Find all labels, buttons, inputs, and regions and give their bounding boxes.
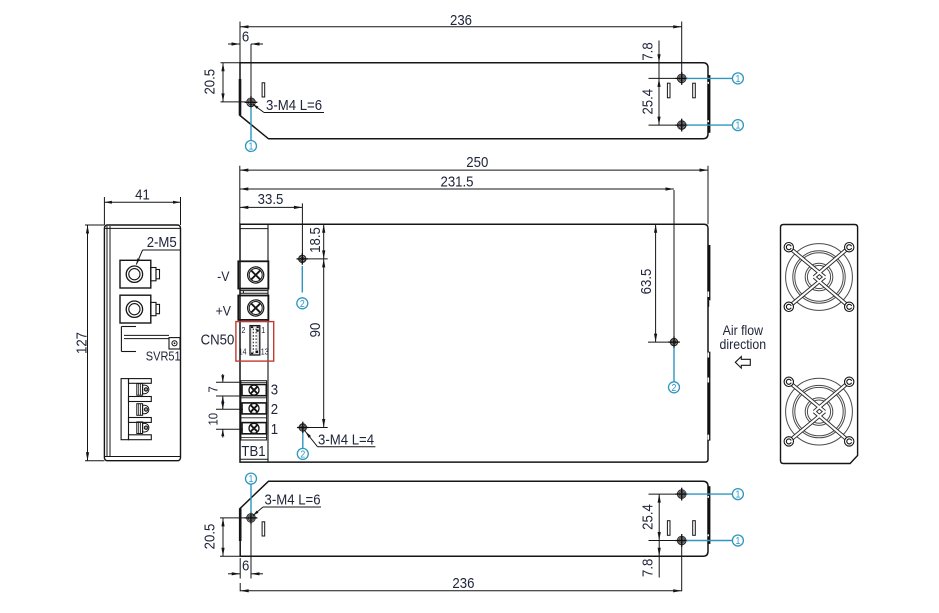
svg-text:1: 1 — [249, 473, 254, 485]
svg-text:25.4: 25.4 — [638, 89, 655, 115]
svg-text:7: 7 — [206, 386, 221, 393]
svg-text:10: 10 — [206, 413, 221, 426]
svg-text:2: 2 — [672, 381, 677, 393]
svg-text:1: 1 — [735, 488, 740, 500]
svg-text:18.5: 18.5 — [306, 227, 323, 253]
svg-text:1: 1 — [261, 325, 265, 335]
svg-text:6: 6 — [242, 28, 249, 45]
svg-text:1: 1 — [735, 72, 740, 84]
svg-text:direction: direction — [720, 336, 767, 352]
svg-text:3-M4 L=4: 3-M4 L=4 — [318, 430, 374, 447]
svg-text:250: 250 — [466, 153, 488, 170]
svg-text:1: 1 — [249, 140, 254, 152]
svg-text:2: 2 — [300, 448, 305, 460]
svg-text:20.5: 20.5 — [201, 69, 218, 95]
svg-text:1: 1 — [735, 534, 740, 546]
svg-text:236: 236 — [452, 574, 474, 591]
svg-text:2: 2 — [241, 325, 245, 335]
svg-text:3: 3 — [271, 381, 278, 398]
svg-text:TB1: TB1 — [241, 442, 265, 459]
svg-text:CN50: CN50 — [201, 330, 235, 347]
svg-text:2-M5: 2-M5 — [147, 233, 177, 250]
svg-text:41: 41 — [135, 186, 150, 203]
svg-text:1: 1 — [735, 119, 740, 131]
svg-text:7.8: 7.8 — [638, 42, 655, 60]
svg-text:13: 13 — [261, 347, 269, 357]
svg-text:236: 236 — [450, 11, 472, 28]
svg-text:63.5: 63.5 — [637, 269, 654, 295]
svg-text:14: 14 — [239, 347, 247, 357]
svg-text:-V: -V — [217, 268, 230, 284]
svg-text:+V: +V — [216, 303, 232, 319]
svg-text:33.5: 33.5 — [258, 190, 284, 207]
svg-text:2: 2 — [300, 297, 305, 309]
svg-text:20.5: 20.5 — [201, 524, 218, 550]
svg-text:2: 2 — [271, 400, 278, 417]
svg-text:3-M4 L=6: 3-M4 L=6 — [265, 491, 321, 508]
svg-text:90: 90 — [306, 323, 323, 338]
svg-text:SVR51: SVR51 — [146, 350, 181, 364]
svg-text:127: 127 — [73, 332, 90, 354]
svg-text:7.8: 7.8 — [638, 558, 655, 576]
svg-text:1: 1 — [271, 420, 278, 437]
svg-text:25.4: 25.4 — [638, 504, 655, 530]
svg-text:3-M4 L=6: 3-M4 L=6 — [266, 96, 322, 113]
svg-text:231.5: 231.5 — [441, 172, 474, 189]
svg-text:6: 6 — [242, 557, 249, 574]
